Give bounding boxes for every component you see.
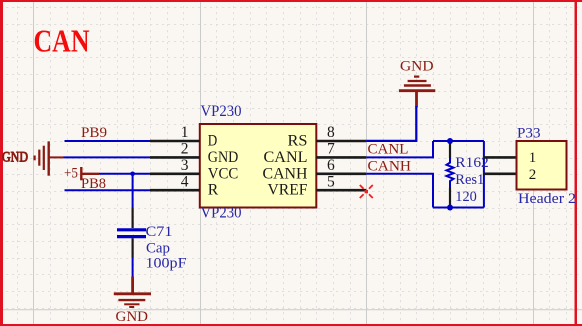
power port +5 bbox=[81, 167, 99, 180]
svg-text:Cap: Cap bbox=[146, 241, 170, 257]
svg-text:VCC: VCC bbox=[208, 165, 239, 182]
pin 5 (VREF) bbox=[316, 189, 366, 192]
svg-text:6: 6 bbox=[327, 157, 335, 174]
svg-text:7: 7 bbox=[327, 141, 335, 158]
svg-text:D: D bbox=[208, 133, 218, 150]
wire bottom rail bbox=[433, 207, 484, 209]
svg-text:GND: GND bbox=[208, 149, 239, 166]
svg-text:2: 2 bbox=[181, 141, 189, 158]
sheet border left bbox=[0, 0, 3, 326]
capacitor C71 top pin bbox=[132, 208, 134, 229]
pin 4 (R) bbox=[150, 189, 200, 192]
no-ERC cross on pin 5 (VREF) bbox=[360, 185, 373, 198]
svg-text:CAN: CAN bbox=[34, 23, 90, 59]
pin 3 (VCC) bbox=[150, 173, 200, 176]
svg-text:1: 1 bbox=[181, 124, 189, 141]
svg-text:4: 4 bbox=[181, 173, 189, 190]
wire GND to pin 8 (RS) bbox=[366, 107, 417, 140]
svg-text:RS: RS bbox=[288, 133, 308, 150]
pin 7 (CANL) bbox=[316, 156, 366, 159]
svg-text:GND: GND bbox=[2, 150, 28, 166]
pin 6 (CANH) bbox=[316, 173, 366, 176]
svg-text:VREF: VREF bbox=[268, 182, 308, 199]
svg-text:GND: GND bbox=[400, 59, 434, 75]
connector P33 pin 2 wire bbox=[484, 173, 517, 176]
svg-text:VP230: VP230 bbox=[201, 205, 242, 222]
capacitor C71 plates bbox=[117, 228, 146, 231]
IC VP230 body bbox=[200, 124, 316, 208]
wire right vertical bbox=[483, 141, 485, 208]
pin 1 (D) bbox=[150, 140, 200, 143]
wire +5 to pin 3 (VCC) bbox=[99, 173, 150, 175]
svg-text:5: 5 bbox=[327, 173, 335, 190]
svg-text:1: 1 bbox=[529, 150, 537, 166]
wire top rail bbox=[433, 140, 484, 142]
sheet border bottom bbox=[0, 324, 582, 326]
svg-text:R162: R162 bbox=[455, 155, 489, 171]
junction resistor bottom bbox=[447, 205, 453, 211]
svg-text:P33: P33 bbox=[517, 126, 541, 142]
svg-text:GND: GND bbox=[116, 309, 149, 325]
pin 2 (GND) bbox=[150, 156, 200, 159]
wire GND to pin 2 bbox=[64, 156, 151, 158]
power port GND (bottom) bbox=[114, 277, 151, 308]
connector P33 pin 1 wire bbox=[484, 156, 517, 159]
svg-text:+5: +5 bbox=[64, 166, 78, 182]
pin 8 (RS) bbox=[316, 140, 366, 143]
wire net PB8 to pin 4 bbox=[65, 189, 151, 191]
junction resistor top bbox=[447, 138, 453, 144]
capacitor C71 bottom pin bbox=[132, 238, 134, 258]
wire CANH pin6 to bottom rail bbox=[366, 174, 433, 208]
svg-text:2: 2 bbox=[529, 167, 537, 183]
svg-text:CANL: CANL bbox=[368, 142, 409, 158]
svg-text:120: 120 bbox=[455, 189, 477, 205]
wire C71 to GND bbox=[132, 258, 134, 277]
sheet border top bbox=[0, 0, 582, 2]
svg-text:8: 8 bbox=[327, 124, 335, 141]
sheet border right bbox=[575, 0, 578, 326]
power port GND (top right) bbox=[399, 77, 435, 108]
svg-text:VP230: VP230 bbox=[201, 103, 242, 120]
svg-text:CANL: CANL bbox=[264, 149, 308, 166]
svg-text:Res1: Res1 bbox=[455, 172, 484, 188]
svg-text:C71: C71 bbox=[146, 224, 173, 240]
svg-text:R: R bbox=[208, 182, 219, 199]
wire net PB9 to pin 1 bbox=[65, 140, 151, 142]
svg-text:3: 3 bbox=[181, 157, 189, 174]
svg-text:CANH: CANH bbox=[263, 165, 308, 182]
wire VCC junction down to C71 bbox=[132, 174, 134, 208]
junction on VCC wire bbox=[130, 172, 135, 177]
connector P33 body bbox=[517, 141, 567, 190]
svg-text:100pF: 100pF bbox=[146, 255, 187, 271]
wire CANL pin7 to top rail bbox=[366, 141, 433, 157]
svg-text:PB9: PB9 bbox=[81, 125, 107, 141]
resistor R162 zigzag bbox=[447, 158, 454, 188]
svg-text:CANH: CANH bbox=[368, 158, 412, 174]
power port GND (left) bbox=[2, 141, 64, 175]
svg-text:Header 2: Header 2 bbox=[518, 191, 576, 207]
resistor R162 leads bbox=[449, 141, 451, 158]
